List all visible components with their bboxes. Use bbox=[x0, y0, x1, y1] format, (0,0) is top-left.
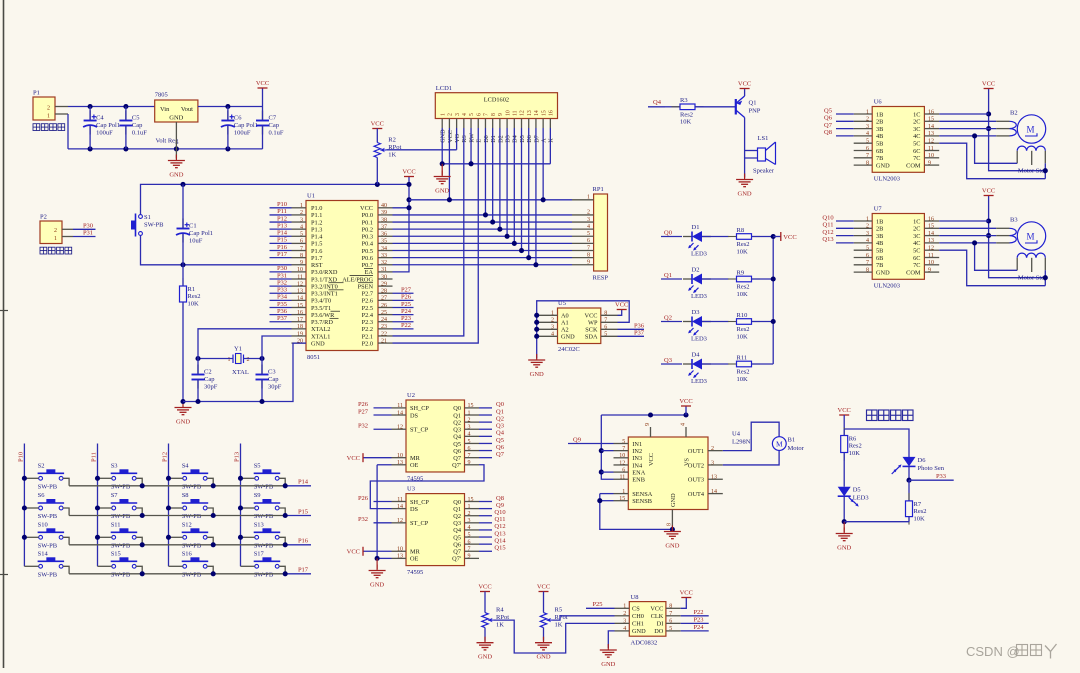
svg-text:SW-PB: SW-PB bbox=[111, 513, 131, 520]
wire P0.3 bus bbox=[393, 235, 573, 237]
junction bbox=[88, 104, 93, 109]
svg-text:ST_CP: ST_CP bbox=[410, 520, 429, 527]
svg-text:Q4: Q4 bbox=[453, 527, 462, 534]
svg-text:2B: 2B bbox=[876, 119, 883, 126]
svg-text:Q9: Q9 bbox=[573, 437, 581, 444]
wire speaker bottom pin to ground bbox=[745, 158, 758, 178]
svg-text:10K: 10K bbox=[914, 515, 926, 522]
svg-text:P11: P11 bbox=[277, 208, 287, 215]
svg-text:SW-PB: SW-PB bbox=[111, 571, 131, 578]
wire C3 bottom bbox=[261, 379, 263, 402]
svg-text:24C02C: 24C02C bbox=[558, 346, 580, 353]
pin stub S17 left bbox=[241, 565, 255, 567]
svg-text:ENA: ENA bbox=[632, 469, 645, 476]
wire P0.7 bus bbox=[393, 264, 573, 266]
svg-text:D1: D1 bbox=[692, 224, 700, 231]
svg-text:4: 4 bbox=[680, 423, 686, 426]
junction VS pin bbox=[683, 412, 688, 417]
svg-text:10K: 10K bbox=[737, 248, 749, 255]
net label P14 bbox=[298, 479, 309, 486]
svg-text:P3.3/INT1: P3.3/INT1 bbox=[311, 291, 338, 298]
svg-text:Q2: Q2 bbox=[664, 315, 672, 322]
svg-text:Cap: Cap bbox=[204, 376, 214, 383]
switch S13 SW-PB bbox=[254, 521, 281, 549]
svg-text:VCC: VCC bbox=[679, 398, 692, 405]
svg-text:P3.2/INT0: P3.2/INT0 bbox=[311, 283, 338, 290]
svg-text:LS1: LS1 bbox=[758, 135, 769, 142]
net label P10 (column) bbox=[17, 452, 24, 462]
net label Q0 bbox=[496, 401, 504, 408]
capacitor C1 bbox=[176, 219, 213, 245]
wire 7805 Vout to VCC bbox=[198, 106, 263, 108]
junction ENA bbox=[599, 470, 604, 475]
svg-text:S4: S4 bbox=[182, 462, 190, 469]
ground detection bbox=[836, 528, 853, 552]
pin stub S13 left bbox=[241, 536, 255, 538]
wire LCD D2 bbox=[499, 128, 501, 229]
svg-text:B2: B2 bbox=[1010, 110, 1018, 117]
wire P2.0 to LCD E bbox=[393, 143, 479, 344]
svg-text:Q12: Q12 bbox=[494, 523, 505, 530]
wire bottom coil left pin bbox=[975, 243, 1018, 270]
power VCC for U2 MR bbox=[347, 453, 363, 462]
svg-text:CS: CS bbox=[632, 606, 640, 613]
connector P1 bbox=[33, 90, 55, 121]
switch S14 SW-PB bbox=[38, 550, 65, 578]
junction row bbox=[283, 513, 288, 518]
junction column bbox=[95, 535, 100, 540]
net label P15 bbox=[277, 237, 287, 244]
svg-text:Res2: Res2 bbox=[737, 241, 750, 248]
LED D5 bbox=[838, 487, 869, 507]
wire S6 right contact step bbox=[63, 508, 69, 516]
wire 2C to coil bbox=[939, 120, 996, 122]
junction motor common bbox=[1043, 275, 1048, 280]
junction bbox=[174, 146, 179, 151]
net label Q10 bbox=[494, 509, 505, 516]
svg-text:4C: 4C bbox=[913, 133, 920, 140]
net label P30 bbox=[277, 265, 287, 272]
svg-text:VCC: VCC bbox=[680, 590, 693, 597]
svg-text:LCD1: LCD1 bbox=[436, 85, 452, 92]
power VCC for U8 bbox=[680, 590, 693, 598]
net label Q14 bbox=[494, 537, 506, 544]
svg-text:P33: P33 bbox=[277, 287, 287, 294]
svg-text:GND: GND bbox=[370, 582, 384, 589]
net label Q11 bbox=[495, 516, 506, 523]
svg-text:P3.4/T0: P3.4/T0 bbox=[311, 298, 331, 305]
svg-text:M: M bbox=[776, 439, 783, 448]
potentiometer R2 RPot bbox=[374, 137, 401, 159]
svg-text:GND: GND bbox=[601, 661, 615, 668]
svg-text:Res2: Res2 bbox=[737, 369, 750, 376]
svg-text:Q6: Q6 bbox=[824, 115, 833, 122]
svg-text:SENSB: SENSB bbox=[632, 498, 652, 505]
svg-text:P0.0: P0.0 bbox=[362, 212, 373, 219]
svg-text:1C: 1C bbox=[913, 111, 920, 118]
power VCC for U5 bbox=[615, 302, 628, 310]
wire C6 bottom bbox=[227, 126, 229, 149]
net label Q12 bbox=[494, 523, 505, 530]
net label P16 bbox=[277, 244, 288, 251]
wire net P35 bbox=[270, 306, 292, 308]
junction bbox=[447, 197, 452, 202]
wire 5C loop to motor bbox=[939, 250, 1045, 286]
svg-text:OE: OE bbox=[410, 556, 419, 563]
svg-text:3: 3 bbox=[587, 217, 590, 223]
svg-text:2C: 2C bbox=[913, 226, 920, 233]
wire CS bbox=[586, 607, 615, 609]
net label Q9 bbox=[573, 437, 581, 444]
wire S2 right contact step bbox=[63, 478, 69, 486]
motor B2 step motor symbol bbox=[996, 110, 1047, 175]
wire S10 right contact step bbox=[63, 537, 69, 545]
wire 1C bbox=[939, 113, 988, 115]
LED D2 bbox=[683, 267, 711, 301]
pin stub P2.1 bbox=[62, 236, 73, 238]
wire R10 to VCC rail bbox=[752, 321, 774, 323]
switch S7 SW-PB bbox=[111, 492, 138, 520]
svg-text:Q4: Q4 bbox=[653, 99, 662, 106]
net label Q4 bbox=[653, 99, 662, 106]
svg-text:P0.3: P0.3 bbox=[362, 234, 373, 241]
driver U6 ULN2003 bbox=[854, 98, 940, 182]
junction bbox=[771, 234, 776, 239]
wire net P23 bbox=[393, 321, 414, 323]
junction bbox=[534, 320, 539, 325]
power VCC for B3 bbox=[982, 188, 995, 196]
wire Q4 label stub bbox=[648, 106, 665, 108]
svg-text:P33: P33 bbox=[936, 473, 946, 480]
switch S15 SW-PB bbox=[111, 550, 138, 578]
svg-text:S17: S17 bbox=[254, 550, 265, 557]
svg-text:P1.4: P1.4 bbox=[311, 234, 323, 241]
junction column bbox=[95, 476, 100, 481]
svg-text:CH1: CH1 bbox=[632, 621, 644, 628]
svg-text:OE: OE bbox=[410, 462, 419, 469]
svg-text:1B: 1B bbox=[876, 111, 883, 118]
svg-text:E: E bbox=[476, 139, 483, 143]
svg-text:Q3: Q3 bbox=[453, 427, 461, 434]
junction 1C bbox=[986, 218, 991, 223]
capacitor C5 bbox=[119, 111, 147, 137]
svg-text:Q1: Q1 bbox=[664, 272, 672, 279]
svg-text:SW-PB: SW-PB bbox=[144, 222, 164, 229]
svg-text:Q4: Q4 bbox=[496, 430, 505, 437]
wire C5 top bbox=[125, 107, 127, 121]
svg-text:11: 11 bbox=[513, 110, 519, 116]
resistor R3 bbox=[672, 97, 704, 125]
svg-text:Q13: Q13 bbox=[494, 530, 505, 537]
junction IN2 bbox=[599, 448, 604, 453]
svg-text:Q10: Q10 bbox=[494, 509, 505, 516]
wire LCD VCC pin2 bbox=[448, 128, 450, 200]
shift register U3 74595 bbox=[392, 486, 480, 577]
junction bbox=[123, 104, 128, 109]
svg-text:SW-PB: SW-PB bbox=[111, 542, 131, 549]
junction bbox=[195, 399, 200, 404]
svg-text:S16: S16 bbox=[182, 550, 193, 557]
svg-text:VCC: VCC bbox=[982, 81, 995, 88]
svg-text:S11: S11 bbox=[111, 521, 121, 528]
wire net P37 bbox=[270, 321, 292, 323]
ground below U5 bbox=[528, 354, 545, 378]
junction row bbox=[283, 483, 288, 488]
svg-text:K: K bbox=[548, 138, 555, 143]
pin stub P1.2 bbox=[55, 106, 68, 108]
wire C5 bottom bbox=[125, 125, 127, 149]
net label P36 bbox=[277, 308, 288, 315]
svg-text:ULN2003: ULN2003 bbox=[874, 175, 900, 182]
label Volt Reg bbox=[156, 138, 180, 145]
wire keyboard row net P17 bbox=[69, 573, 311, 575]
junction bbox=[842, 519, 847, 524]
svg-text:9: 9 bbox=[587, 260, 590, 266]
net label P24 bbox=[693, 624, 704, 631]
svg-text:S15: S15 bbox=[111, 550, 121, 557]
svg-text:DS: DS bbox=[410, 506, 419, 513]
wire P2 pin1 bbox=[73, 236, 96, 238]
wire D6 to node bbox=[908, 466, 910, 480]
net label Q3 bbox=[496, 423, 504, 430]
switch S17 SW-PB bbox=[254, 550, 281, 578]
sheet border left edge bbox=[0, 0, 8, 668]
junction column bbox=[95, 505, 100, 510]
svg-text:P15: P15 bbox=[298, 508, 308, 515]
svg-text:P1.5: P1.5 bbox=[311, 241, 322, 248]
wire net P16 bbox=[270, 250, 292, 252]
wire supply to ENB bbox=[601, 415, 613, 479]
wire to U1 XTAL1 bbox=[262, 336, 292, 359]
net label P35 bbox=[277, 301, 287, 308]
svg-text:P0.6: P0.6 bbox=[362, 255, 373, 262]
junction D7 to P0.7 bbox=[533, 262, 538, 267]
svg-text:Q7: Q7 bbox=[824, 122, 833, 129]
svg-text:GND: GND bbox=[169, 172, 183, 179]
net label Q6 bbox=[496, 444, 505, 451]
net label Q5 bbox=[824, 107, 832, 114]
net label P33 bbox=[277, 287, 287, 294]
svg-text:Cap: Cap bbox=[268, 376, 278, 383]
wire U3 Q5 bbox=[479, 536, 492, 538]
svg-text:5: 5 bbox=[469, 113, 475, 116]
wire U2 Q5 bbox=[479, 442, 492, 444]
junction 3C bbox=[986, 126, 991, 131]
svg-text:Q5: Q5 bbox=[824, 107, 832, 114]
wire bottom coil right pin down bbox=[1044, 270, 1046, 285]
svg-text:R10: R10 bbox=[737, 312, 748, 319]
svg-text:5B: 5B bbox=[876, 141, 883, 148]
svg-text:P32: P32 bbox=[277, 279, 287, 286]
svg-text:VCC: VCC bbox=[738, 81, 751, 88]
svg-text:U8: U8 bbox=[631, 594, 639, 601]
wire U3 Q3 bbox=[479, 522, 492, 524]
svg-text:3: 3 bbox=[455, 113, 461, 116]
svg-text:2: 2 bbox=[448, 113, 454, 116]
wire net P36 bbox=[270, 314, 292, 316]
svg-text:GND: GND bbox=[169, 115, 183, 122]
svg-text:VCC: VCC bbox=[783, 234, 796, 241]
wire U3 Q7 bbox=[479, 550, 492, 552]
svg-text:Q11: Q11 bbox=[823, 222, 834, 229]
svg-text:S3: S3 bbox=[111, 462, 118, 469]
net label Q1 bbox=[664, 272, 672, 279]
junction bbox=[771, 276, 776, 281]
svg-text:P14: P14 bbox=[277, 230, 288, 237]
svg-text:P34: P34 bbox=[277, 294, 288, 301]
svg-text:Q10: Q10 bbox=[822, 214, 833, 221]
wire motor B1 to OUT2 bbox=[723, 451, 779, 465]
wire Q2 to LED D3 bbox=[661, 321, 682, 323]
svg-text:P1.3: P1.3 bbox=[311, 226, 322, 233]
wire U8 to P23 bbox=[681, 622, 709, 624]
junction column bbox=[238, 505, 243, 510]
junction row bbox=[140, 513, 145, 518]
power VCC for contrast pot bbox=[371, 121, 384, 129]
svg-text:R9: R9 bbox=[737, 269, 745, 276]
svg-text:Q4: Q4 bbox=[453, 434, 462, 441]
svg-text:P2.1: P2.1 bbox=[362, 333, 373, 340]
pin stub gnd stem det bbox=[843, 522, 845, 532]
pin stub LCD gnd stem bbox=[441, 164, 443, 175]
label dianyuan-jiekou (power connector) bbox=[33, 124, 65, 131]
wire R8 to VCC rail bbox=[752, 236, 774, 238]
label chuankou-jiekou (serial connector) bbox=[40, 247, 72, 254]
wire net P10 bbox=[270, 207, 292, 209]
svg-text:Cap: Cap bbox=[132, 122, 142, 129]
junction column bbox=[166, 505, 171, 510]
svg-text:CLK: CLK bbox=[651, 613, 664, 620]
svg-text:P13: P13 bbox=[234, 452, 241, 462]
net label P15 bbox=[298, 508, 308, 515]
svg-text:R4: R4 bbox=[496, 607, 504, 614]
svg-text:VS: VS bbox=[684, 457, 691, 466]
wire Q1 to LED D2 bbox=[661, 278, 682, 280]
svg-text:GND: GND bbox=[530, 371, 544, 378]
wire U2 DS bbox=[374, 414, 392, 416]
wire U3 ST_CP bbox=[374, 522, 392, 524]
microcontroller U1 8051 bbox=[292, 193, 393, 362]
power VCC near U1 bbox=[402, 169, 415, 177]
svg-text:SH_CP: SH_CP bbox=[410, 499, 429, 506]
wire U2 Q7 bbox=[479, 457, 492, 459]
svg-text:S6: S6 bbox=[38, 492, 46, 499]
shift register U2 74595 bbox=[392, 392, 480, 483]
svg-text:100uF: 100uF bbox=[234, 130, 251, 137]
net label P37 bbox=[277, 315, 288, 322]
net label P11 bbox=[277, 208, 287, 215]
junction C1 top bbox=[180, 182, 185, 187]
wire U3 Q6 bbox=[479, 543, 492, 545]
svg-text:Q0: Q0 bbox=[664, 230, 672, 237]
wire P1 pin2 to 7805 Vin bbox=[68, 106, 155, 108]
power VCC for R4 bbox=[478, 584, 491, 592]
junction D1 to P0.1 bbox=[490, 219, 495, 224]
wire U3 SH_CP bbox=[374, 501, 392, 503]
capacitor C3 bbox=[256, 365, 282, 391]
svg-text:C2: C2 bbox=[204, 369, 212, 376]
wire D5 to ground rail bbox=[843, 496, 845, 522]
resistor R1 bbox=[180, 278, 201, 310]
net label P31 bbox=[83, 230, 93, 237]
svg-text:Q7': Q7' bbox=[452, 462, 461, 469]
junction U4 GND bbox=[670, 527, 675, 532]
svg-text:10K: 10K bbox=[737, 291, 749, 298]
wire C6 top bbox=[227, 107, 229, 121]
svg-text:1K: 1K bbox=[496, 621, 504, 628]
svg-text:GND: GND bbox=[876, 269, 890, 276]
svg-text:6C: 6C bbox=[913, 148, 920, 155]
pin stub S7 left bbox=[98, 507, 112, 509]
net label P22 bbox=[693, 609, 703, 616]
junction D3 to P0.3 bbox=[505, 234, 510, 239]
junction column bbox=[22, 505, 27, 510]
net label P23 bbox=[401, 315, 411, 322]
wire S7 right contact step bbox=[136, 508, 142, 516]
svg-text:P0.2: P0.2 bbox=[362, 226, 373, 233]
net label P25 bbox=[401, 301, 411, 308]
svg-text:6: 6 bbox=[476, 113, 482, 116]
wire C7 top bbox=[262, 107, 264, 121]
svg-text:P12: P12 bbox=[162, 452, 169, 462]
svg-text:C1: C1 bbox=[189, 223, 197, 230]
svg-text:IN1: IN1 bbox=[632, 441, 642, 448]
svg-text:DS: DS bbox=[410, 412, 419, 419]
svg-text:D6: D6 bbox=[918, 457, 927, 464]
wire P0.6 bus bbox=[393, 257, 573, 259]
wire U3 Q0 bbox=[479, 501, 492, 503]
svg-text:SW-PB: SW-PB bbox=[182, 483, 202, 490]
svg-text:P3.1/TXD: P3.1/TXD bbox=[311, 276, 338, 283]
LED D4 bbox=[683, 352, 711, 386]
wire C4 top bbox=[89, 107, 91, 121]
ground below 7805 bbox=[168, 155, 185, 179]
svg-text:SW-PB: SW-PB bbox=[38, 571, 58, 578]
svg-text:Q0: Q0 bbox=[453, 499, 461, 506]
wire U8 GND bbox=[608, 631, 614, 648]
wire XTAL pin2 bbox=[244, 358, 263, 360]
svg-text:CSDN @: CSDN @ bbox=[966, 644, 1020, 659]
wire top branch to D6 bbox=[844, 429, 909, 457]
wire S15 right contact step bbox=[136, 566, 142, 574]
svg-text:SW-PB: SW-PB bbox=[38, 513, 58, 520]
svg-text:VCC: VCC bbox=[838, 407, 851, 414]
power VCC for U4 bbox=[679, 398, 692, 406]
pin stub S5 left bbox=[241, 477, 255, 479]
svg-text:Motor: Motor bbox=[788, 445, 805, 452]
junction row bbox=[140, 571, 145, 576]
svg-text:P32: P32 bbox=[358, 516, 368, 523]
wire S11 right contact step bbox=[136, 537, 142, 545]
junction row bbox=[140, 483, 145, 488]
wire to net label P33 bbox=[909, 479, 954, 481]
net label P12 bbox=[277, 215, 287, 222]
net label P27 bbox=[401, 287, 412, 294]
net label Q5 bbox=[496, 437, 504, 444]
wire R7 bottom bbox=[908, 517, 910, 522]
junction bbox=[534, 313, 539, 318]
wire to IN2 bbox=[601, 450, 613, 452]
svg-text:LED3: LED3 bbox=[853, 495, 869, 502]
pin stub S9 left bbox=[241, 507, 255, 509]
wire S1 top to RST pull-up net bbox=[141, 184, 378, 214]
wire detection ground rail bbox=[844, 521, 909, 523]
svg-text:SW-PB: SW-PB bbox=[254, 542, 274, 549]
junction column bbox=[238, 476, 243, 481]
wire LCD K pin16 bbox=[549, 128, 551, 164]
wire U2 Q1 bbox=[479, 414, 492, 416]
wire XTAL pin1 bbox=[198, 358, 233, 360]
